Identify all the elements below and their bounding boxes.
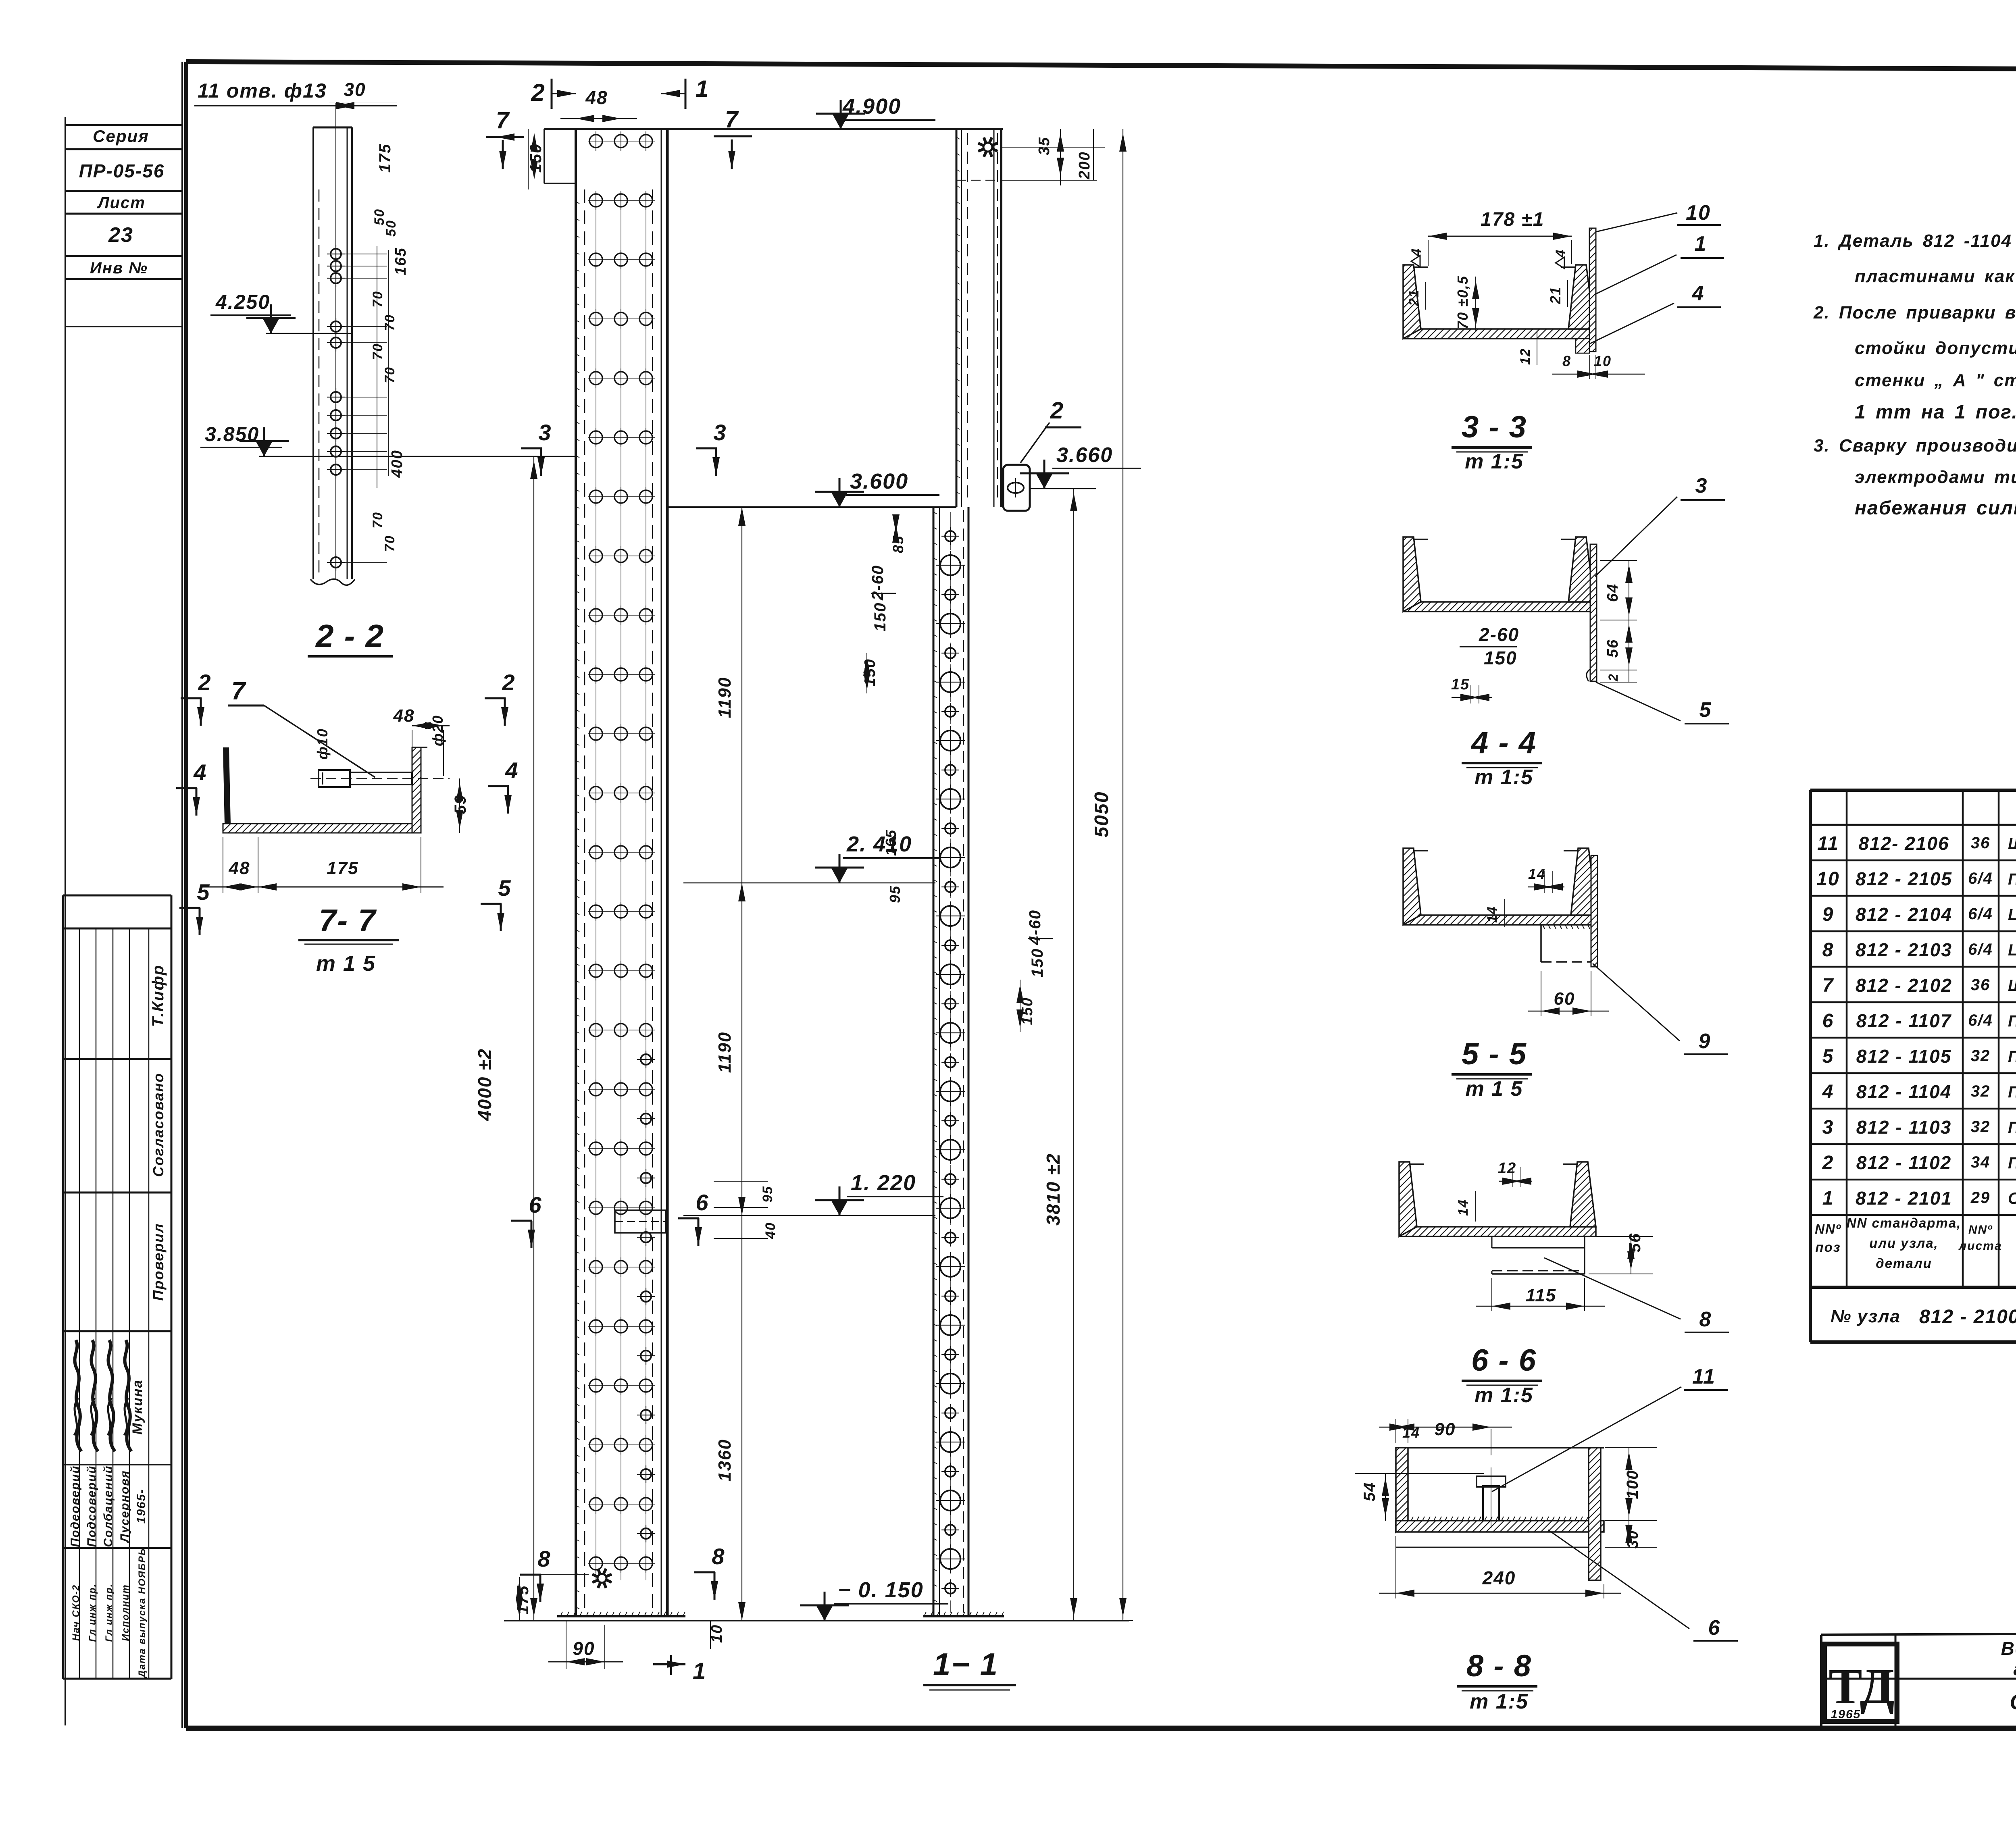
star symbol at right column top <box>983 143 992 152</box>
svg-text:14: 14 <box>1485 906 1500 923</box>
svg-text:32: 32 <box>1971 1047 1991 1065</box>
svg-text:1− 1: 1− 1 <box>933 1646 998 1682</box>
svg-text:8: 8 <box>537 1546 551 1571</box>
left dimension line 4000±2 <box>474 456 537 1621</box>
svg-text:70: 70 <box>370 291 385 308</box>
svg-text:1190: 1190 <box>715 1032 735 1073</box>
svg-text:m 1 5: m 1 5 <box>1466 1077 1523 1101</box>
svg-text:L 56×36×4 С= 115: L 56×36×4 С= 115 <box>2008 941 2016 959</box>
level mark -0.150 <box>800 1578 948 1621</box>
svg-text:12: 12 <box>1498 1160 1516 1177</box>
svg-text:5 - 5: 5 - 5 <box>1462 1037 1527 1071</box>
svg-text:NNº: NNº <box>1968 1223 1993 1236</box>
svg-text:10: 10 <box>1686 201 1711 225</box>
svg-text:4.250: 4.250 <box>215 291 270 313</box>
section cut marks <box>176 76 752 1602</box>
svg-text:Дата выпуска НОЯБРЬ: Дата выпуска НОЯБРЬ <box>137 1548 148 1678</box>
svg-text:70: 70 <box>382 314 398 331</box>
svg-text:812 - 2100: 812 - 2100 <box>1919 1306 2016 1328</box>
svg-text:4-60: 4-60 <box>1026 909 1044 945</box>
label "1-1" <box>923 1646 1016 1690</box>
bracket detail (поз.2) at 3.660 <box>1003 397 1081 511</box>
svg-text:56: 56 <box>1626 1233 1644 1253</box>
level mark 2.410 <box>683 832 940 883</box>
svg-text:11 отв. ф13: 11 отв. ф13 <box>198 79 327 102</box>
svg-text:150: 150 <box>1029 948 1046 978</box>
svg-text:70: 70 <box>370 512 385 529</box>
svg-text:5: 5 <box>197 879 210 905</box>
svg-text:набежания сильного нагрева: набежания сильного нагрева соединяемых э… <box>1855 497 2016 519</box>
right dimension lines 3810 / 5050 <box>1004 129 1133 1621</box>
svg-text:5: 5 <box>1699 698 1712 722</box>
svg-text:Серия: Серия <box>93 127 149 146</box>
svg-text:Согласовано: Согласовано <box>150 1073 167 1177</box>
svg-text:6: 6 <box>1822 1010 1834 1032</box>
svg-text:30: 30 <box>344 79 366 100</box>
svg-text:812- 2106: 812- 2106 <box>1858 833 1949 854</box>
svg-text:48: 48 <box>393 706 415 726</box>
svg-text:3: 3 <box>1822 1117 1834 1138</box>
svg-text:ф20: ф20 <box>429 715 446 746</box>
svg-text:Пластина - 8×12×2480: Пластина - 8×12×2480 <box>2008 1083 2016 1101</box>
svg-text:10: 10 <box>1594 353 1612 369</box>
svg-text:3 - 3: 3 - 3 <box>1462 410 1527 444</box>
svg-text:7: 7 <box>231 677 246 705</box>
svg-text:стенки „ А " стойки вокруг п: стенки „ А " стойки вокруг продольной ос… <box>1855 370 2016 390</box>
svg-text:m 1 5: m 1 5 <box>316 951 376 976</box>
svg-text:4: 4 <box>1553 249 1568 258</box>
small plate at 6-6 level on left column <box>615 1210 666 1233</box>
svg-text:95: 95 <box>760 1186 775 1203</box>
svg-text:812 - 2105: 812 - 2105 <box>1856 868 1952 889</box>
svg-text:6: 6 <box>529 1192 542 1217</box>
svg-text:листа: листа <box>1958 1239 2002 1253</box>
svg-text:2. После приварки всех: 2. После приварки всех элементов: непрям… <box>1813 303 2016 323</box>
svg-text:4: 4 <box>1822 1081 1834 1103</box>
svg-text:m 1:5: m 1:5 <box>1465 450 1524 473</box>
svg-text:поз: поз <box>1815 1240 1841 1255</box>
svg-text:2: 2 <box>531 79 545 106</box>
right column lower rack strip with alternating holes <box>933 507 968 1616</box>
svg-text:36: 36 <box>1971 976 1991 994</box>
top-left notch with dim 150 <box>544 129 545 183</box>
svg-text:2-60: 2-60 <box>869 565 887 601</box>
svg-text:175: 175 <box>376 144 394 173</box>
svg-text:11: 11 <box>1692 1365 1716 1388</box>
svg-text:NNº: NNº <box>1815 1222 1841 1236</box>
svg-text:6/4: 6/4 <box>1968 870 1993 887</box>
level mark 3.660 <box>1020 443 1141 489</box>
svg-text:34: 34 <box>1971 1153 1991 1171</box>
main elevation view of assembled column (1-1) <box>527 129 1003 1616</box>
svg-text:Штырь ф30: Штырь ф30 <box>2008 835 2016 853</box>
svg-text:812 - 2104: 812 - 2104 <box>1856 904 1952 925</box>
label "3-3" <box>1452 410 1532 473</box>
svg-text:Гл инж пр.: Гл инж пр. <box>104 1584 115 1642</box>
svg-text:С в сборе 8 12 - 2100: С в сборе 8 12 - 2100 <box>2010 1690 2016 1714</box>
svg-text:или узла,: или узла, <box>1869 1236 1939 1251</box>
svg-text:48: 48 <box>229 858 250 878</box>
label "5-5" <box>1452 1037 1532 1101</box>
svg-text:Подеоверий: Подеоверий <box>69 1465 82 1547</box>
right column upper segment <box>956 129 1001 507</box>
svg-text:6/4: 6/4 <box>1968 1011 1993 1029</box>
svg-text:90: 90 <box>1435 1419 1456 1439</box>
svg-text:Пластина - 6×60×120: Пластина - 6×60×120 <box>2008 1154 2016 1172</box>
svg-text:Пластина - 10×130×240: Пластина - 10×130×240 <box>2008 1012 2016 1030</box>
svg-text:детали: детали <box>1876 1256 1932 1271</box>
level mark 3.600 <box>815 469 939 507</box>
svg-text:812 - 2101: 812 - 2101 <box>1856 1188 1952 1209</box>
section 5-5 <box>1403 848 1728 1054</box>
left column (стойка C22) <box>575 129 577 1616</box>
svg-text:3: 3 <box>713 420 727 445</box>
svg-text:Штырь ф 20: Штырь ф 20 <box>2008 977 2016 995</box>
svg-text:2 - 2: 2 - 2 <box>315 618 384 654</box>
svg-text:автоматическим управлением: автоматическим управлением <box>2014 1658 2016 1679</box>
svg-text:Пластина - 5×14×2500: Пластина - 5×14×2500 <box>2008 870 2016 888</box>
svg-text:NN стандарта,: NN стандарта, <box>1847 1215 1962 1230</box>
svg-text:1. 220: 1. 220 <box>851 1171 916 1195</box>
svg-text:29: 29 <box>1970 1189 1991 1207</box>
svg-text:Ворота подъемно- секционные: Ворота подъемно- секционные с <box>2001 1638 2016 1659</box>
svg-text:Пластина - 6×120×3,740: Пластина - 6×120×3,740 <box>2008 1119 2016 1136</box>
svg-text:2. 410: 2. 410 <box>846 832 912 856</box>
svg-text:3.600: 3.600 <box>850 469 908 493</box>
svg-text:100: 100 <box>1624 1470 1641 1499</box>
svg-text:2: 2 <box>1822 1152 1834 1174</box>
svg-text:Солбацений: Солбацений <box>102 1465 115 1547</box>
svg-text:8: 8 <box>1699 1308 1712 1331</box>
svg-text:7: 7 <box>496 107 510 133</box>
svg-text:3.660: 3.660 <box>1056 443 1113 467</box>
svg-text:812 - 1104: 812 - 1104 <box>1856 1081 1952 1102</box>
svg-text:90: 90 <box>573 1638 595 1659</box>
svg-text:200: 200 <box>1076 151 1093 179</box>
svg-text:150: 150 <box>871 602 889 632</box>
svg-text:8 - 8: 8 - 8 <box>1466 1649 1532 1683</box>
svg-text:Мукина: Мукина <box>130 1379 145 1434</box>
svg-text:6 - 6: 6 - 6 <box>1471 1343 1537 1378</box>
section view 2-2 : drilled column strip <box>194 79 576 585</box>
top right dims 35 / 200 <box>1001 129 1105 185</box>
svg-text:2: 2 <box>198 670 211 695</box>
svg-text:115: 115 <box>1526 1286 1556 1305</box>
label "7-7" <box>298 903 399 976</box>
label "4-4" <box>1462 726 1542 789</box>
svg-text:95: 95 <box>887 885 903 903</box>
svg-text:С 22 × 5040: С 22 × 5040 <box>2008 1190 2016 1207</box>
svg-text:6: 6 <box>1708 1616 1721 1640</box>
svg-text:6: 6 <box>696 1190 709 1215</box>
svg-text:7- 7: 7- 7 <box>319 903 377 938</box>
svg-text:812 - 1102: 812 - 1102 <box>1856 1152 1952 1173</box>
svg-text:m 1:5: m 1:5 <box>1475 766 1533 789</box>
svg-text:400: 400 <box>389 450 406 478</box>
title block <box>1821 1632 2016 1728</box>
svg-text:1965: 1965 <box>1831 1708 1861 1721</box>
svg-text:7: 7 <box>1822 975 1834 996</box>
svg-text:70: 70 <box>382 535 398 552</box>
label "2-2" <box>308 618 393 656</box>
svg-text:Гл инж пр.: Гл инж пр. <box>87 1584 98 1642</box>
svg-text:4 - 4: 4 - 4 <box>1470 726 1537 760</box>
svg-text:1: 1 <box>696 76 709 102</box>
svg-text:10: 10 <box>708 1624 725 1643</box>
svg-text:14: 14 <box>1528 866 1546 882</box>
svg-text:m 1:5: m 1:5 <box>1470 1690 1529 1713</box>
svg-text:Подсоверий: Подсоверий <box>85 1465 98 1547</box>
svg-text:Пластина: Пластина <box>2008 1048 2016 1066</box>
svg-text:− 0. 150: − 0. 150 <box>838 1578 924 1602</box>
svg-text:Исполнит: Исполнит <box>120 1584 131 1641</box>
svg-text:14: 14 <box>1456 1199 1471 1216</box>
signature / approval table (rotated text) <box>63 895 171 1679</box>
svg-text:32: 32 <box>1971 1118 1991 1136</box>
svg-text:5: 5 <box>498 875 511 901</box>
svg-text:4: 4 <box>1692 282 1705 305</box>
svg-text:12: 12 <box>1518 348 1533 365</box>
svg-text:8: 8 <box>712 1544 725 1569</box>
section 6-6 <box>1399 1160 1729 1332</box>
svg-text:23: 23 <box>108 223 133 247</box>
bottom dims 90 / 10 / section mark 1 <box>548 1621 725 1684</box>
svg-text:812 - 2102: 812 - 2102 <box>1856 975 1952 996</box>
star weld symbol at column base <box>598 1574 606 1583</box>
svg-text:5: 5 <box>1822 1046 1834 1067</box>
svg-text:11: 11 <box>1817 833 1839 854</box>
section 7-7 : channel with pin <box>202 677 469 893</box>
svg-text:50: 50 <box>383 220 399 237</box>
svg-text:48: 48 <box>585 87 608 108</box>
svg-text:ТД: ТД <box>1829 1659 1895 1715</box>
svg-text:2: 2 <box>1606 673 1620 682</box>
svg-text:1. Деталь 812 -1104 прива: 1. Деталь 812 -1104 приварить с выдержко… <box>1814 231 2016 251</box>
svg-text:54: 54 <box>1361 1482 1379 1502</box>
svg-text:812 - 1105: 812 - 1105 <box>1856 1046 1952 1067</box>
right hole-spacing dims (2-60/150 etc.) <box>862 514 1053 1032</box>
svg-text:электродами типа Э 42 ГОС: электродами типа Э 42 ГОСТ 9457-6о с пер… <box>1855 467 2016 487</box>
section 4-4 <box>1403 474 1729 724</box>
svg-text:7: 7 <box>725 106 739 133</box>
svg-text:6/4: 6/4 <box>1968 905 1993 923</box>
notes text (Примечания) <box>1813 185 2016 519</box>
svg-text:5050: 5050 <box>1091 791 1112 838</box>
svg-text:21: 21 <box>1406 289 1422 306</box>
svg-text:1190: 1190 <box>715 677 735 718</box>
svg-text:8: 8 <box>1562 353 1571 369</box>
svg-text:812 - 2103: 812 - 2103 <box>1856 939 1952 960</box>
svg-text:3.850: 3.850 <box>205 423 259 445</box>
svg-text:Проверил: Проверил <box>150 1223 167 1301</box>
svg-text:240: 240 <box>1482 1567 1516 1588</box>
svg-text:ПР-05-56: ПР-05-56 <box>79 160 165 181</box>
svg-text:№ узла: № узла <box>1831 1307 1901 1326</box>
svg-text:6/4: 6/4 <box>1968 941 1993 958</box>
svg-text:8: 8 <box>1822 939 1834 961</box>
label "8-8" <box>1457 1649 1537 1713</box>
svg-text:60: 60 <box>1554 989 1575 1009</box>
svg-text:3: 3 <box>1695 474 1708 497</box>
section 3-3 <box>1403 201 1724 379</box>
TD logo <box>1824 1644 1897 1721</box>
svg-text:1 mm на 1 пог. метр и: 1 mm на 1 пог. метр и 2 mm на всей длине… <box>1855 402 2016 423</box>
svg-text:165: 165 <box>392 247 409 275</box>
svg-text:10: 10 <box>1816 868 1839 890</box>
svg-text:пластинами как указано на: пластинами как указано на сборочном черт… <box>1855 266 2016 286</box>
svg-text:4: 4 <box>193 760 207 785</box>
svg-text:Нач СКО-2: Нач СКО-2 <box>71 1584 81 1641</box>
svg-text:2: 2 <box>1050 397 1064 424</box>
svg-text:1360: 1360 <box>715 1439 735 1482</box>
base line and footing <box>504 1574 1129 1621</box>
svg-text:70 ±0,5: 70 ±0,5 <box>1454 275 1471 329</box>
svg-text:1: 1 <box>1695 232 1707 256</box>
svg-text:32: 32 <box>1971 1082 1991 1100</box>
svg-text:812 - 1103: 812 - 1103 <box>1856 1117 1952 1138</box>
hole rows of left column <box>588 131 655 1580</box>
svg-text:1: 1 <box>693 1658 706 1684</box>
svg-text:Т.Кифр: Т.Кифр <box>149 965 167 1027</box>
svg-text:812 - 1107: 812 - 1107 <box>1856 1010 1952 1031</box>
level mark 4.900 <box>816 94 935 129</box>
top plate between columns <box>667 506 956 508</box>
svg-text:3: 3 <box>538 420 552 445</box>
svg-text:3. Сварку производите как: 3. Сварку производите как указано на чер… <box>1814 436 2016 456</box>
svg-text:150: 150 <box>1484 647 1517 668</box>
svg-text:2: 2 <box>502 670 515 695</box>
svg-text:4000 ±2: 4000 ±2 <box>474 1048 495 1121</box>
svg-text:9: 9 <box>1822 904 1834 925</box>
svg-text:стойки допустима не более: стойки допустима не более 2 mm на всей д… <box>1855 338 2016 358</box>
svg-text:40: 40 <box>763 1222 778 1239</box>
svg-text:Инв №: Инв № <box>90 259 148 277</box>
label "6-6" <box>1462 1343 1542 1407</box>
svg-text:Лист: Лист <box>97 194 146 212</box>
section 8-8 <box>1355 1365 1738 1641</box>
svg-text:175: 175 <box>327 858 358 878</box>
svg-text:L 56×36×4 С= 60: L 56×36×4 С= 60 <box>2008 906 2016 924</box>
svg-text:2-60: 2-60 <box>1479 624 1519 645</box>
svg-text:1: 1 <box>1822 1188 1834 1209</box>
svg-text:4.900: 4.900 <box>842 94 901 119</box>
left margin stamp boxes (Серия / ПР-05-56 / Лист / 23 / Инв №) <box>65 62 182 1728</box>
svg-text:1965-: 1965- <box>135 1489 148 1524</box>
svg-text:36: 36 <box>1971 834 1991 852</box>
svg-text:35: 35 <box>1036 137 1053 155</box>
svg-text:178 ±1: 178 ±1 <box>1481 209 1544 230</box>
svg-text:70: 70 <box>382 366 398 383</box>
svg-text:70: 70 <box>370 343 385 360</box>
svg-text:3810 ±2: 3810 ±2 <box>1043 1153 1064 1226</box>
svg-text:165: 165 <box>883 829 899 856</box>
svg-text:15: 15 <box>1451 676 1470 693</box>
svg-text:9: 9 <box>1699 1030 1711 1053</box>
svg-text:56: 56 <box>1604 639 1621 658</box>
svg-text:m 1:5: m 1:5 <box>1475 1384 1533 1407</box>
svg-text:4: 4 <box>1409 248 1424 257</box>
svg-text:Лусерновя: Лусерновя <box>118 1470 131 1543</box>
parts specification table <box>1810 790 2016 1342</box>
level mark 1.220 <box>683 1171 943 1215</box>
svg-text:64: 64 <box>1604 583 1621 602</box>
mid vertical dimension line (1190/1360) <box>714 507 778 1621</box>
svg-text:21: 21 <box>1547 286 1564 304</box>
svg-text:4: 4 <box>505 758 519 783</box>
